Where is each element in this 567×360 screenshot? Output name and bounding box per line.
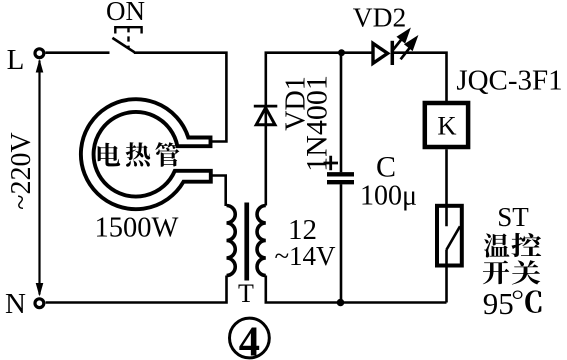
terminal N (35, 299, 44, 308)
label 开关 (483, 260, 540, 284)
svg-text:ON: ON (106, 0, 145, 26)
label 温控 (484, 233, 541, 258)
wire LED to relay (392, 53, 446, 101)
terminal L (35, 49, 44, 58)
capacitor C 100u (327, 174, 354, 182)
svg-text:JQC-3F1: JQC-3F1 (456, 65, 562, 97)
thermal switch ST blade (446, 226, 460, 250)
LED VD2 emission arrows (392, 31, 416, 60)
svg-text:C: C (376, 151, 396, 184)
LED VD2 (373, 41, 392, 65)
wire switch to heater top (134, 53, 227, 142)
label 95C (483, 286, 542, 321)
label 电热管 (98, 142, 180, 167)
svg-text:~220V: ~220V (6, 132, 37, 209)
svg-text:4: 4 (239, 318, 260, 360)
diode VD1 (254, 106, 277, 125)
capacitor C1 polarity + (324, 156, 339, 171)
switch actuator dashed link (127, 27, 129, 48)
svg-text:L: L (7, 44, 25, 76)
dimension arrow ~220V (36, 59, 44, 297)
svg-text:VD2: VD2 (353, 2, 406, 33)
svg-text:ST: ST (497, 202, 529, 232)
svg-text:1500W: 1500W (95, 213, 179, 244)
wire secondary top to bus (266, 53, 372, 206)
junction bottom bus (337, 299, 345, 307)
wire L to switch (45, 51, 109, 54)
wire secondary bottom bus (266, 276, 447, 303)
svg-text:~14V: ~14V (274, 241, 336, 271)
switch actuator bracket (115, 27, 141, 33)
transformer T primary winding (227, 206, 236, 276)
svg-text:K: K (437, 111, 456, 141)
thermal switch ST box (437, 206, 462, 266)
svg-text:100μ: 100μ (360, 181, 417, 212)
heating element tube 电热管 (81, 99, 211, 209)
svg-text:95: 95 (483, 286, 514, 321)
transformer T core (244, 203, 249, 281)
wire bus to capacitor (340, 53, 343, 173)
svg-text:1N4001: 1N4001 (300, 75, 333, 172)
transformer T secondary winding (257, 206, 266, 276)
wire relay to thermal switch (445, 149, 448, 226)
svg-text:N: N (5, 288, 26, 320)
svg-text:T: T (238, 279, 254, 308)
figure number 4 (230, 318, 270, 360)
wire primary bottom to N bus (46, 276, 227, 303)
wire capacitor to bottom bus (340, 184, 343, 302)
relay coil K (425, 103, 468, 147)
wire heater lower lead to transformer primary (212, 176, 226, 207)
switch ON blade (112, 38, 134, 52)
wire thermal switch to bottom bus (445, 250, 448, 303)
junction top bus (338, 49, 345, 56)
